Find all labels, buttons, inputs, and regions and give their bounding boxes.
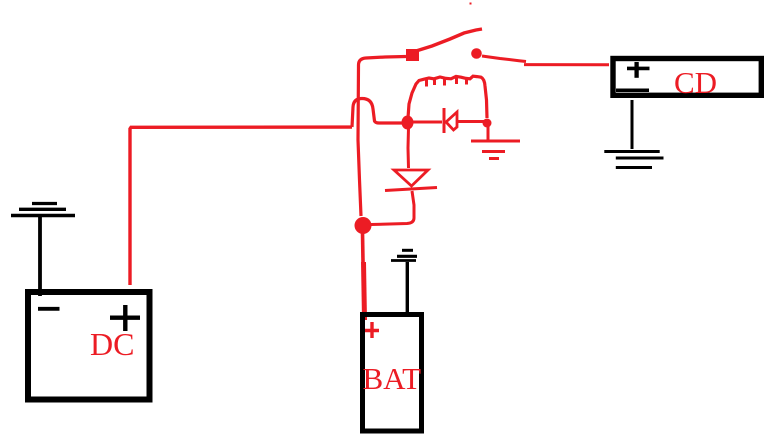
switch SW1 square contact <box>406 49 419 61</box>
battery BAT box <box>363 315 422 432</box>
wire round contact to CD box <box>482 56 609 65</box>
CD box <box>613 59 761 96</box>
wire switch-common down to node J2 <box>358 57 406 217</box>
switch SW1 round contact <box>471 48 482 59</box>
wire J1 down to diode D2 <box>407 128 411 168</box>
CD minus terminal mark <box>616 88 649 92</box>
svg-text:CD: CD <box>674 65 717 100</box>
switch SW1 lever <box>416 29 482 51</box>
ground (red) at coil right <box>487 126 490 140</box>
diode D1 cathode bar <box>443 108 446 133</box>
ground above BAT <box>402 249 413 252</box>
BAT + mark (red) <box>365 322 379 338</box>
wire D2 down to node J2 <box>371 191 414 225</box>
DC box <box>28 292 150 400</box>
node J2 <box>355 217 372 234</box>
diode D1 triangle <box>446 112 457 130</box>
diode D1 wire right <box>458 120 484 123</box>
diode D2 cathode bar <box>385 188 437 191</box>
relay coil teeth <box>427 77 467 87</box>
DC minus terminal mark <box>38 307 60 311</box>
ground above DC <box>32 202 57 205</box>
diode D2 triangle <box>394 170 428 186</box>
svg-text:DC: DC <box>90 326 134 362</box>
stray dot <box>470 3 472 5</box>
relay coil K1 <box>408 76 487 118</box>
wire DC+ to hop (vertical + horizontal) <box>130 127 352 285</box>
wire J2 down to BAT+ <box>361 232 365 262</box>
diode D1 wire left <box>413 121 442 124</box>
wire hop over vertical wire <box>352 99 403 128</box>
ground below CD <box>631 100 634 149</box>
node J1 <box>402 116 414 130</box>
svg-text:BAT: BAT <box>363 361 422 396</box>
DC plus terminal mark <box>110 305 140 331</box>
node coil-right corner <box>483 119 492 128</box>
CD plus terminal mark <box>627 67 650 71</box>
